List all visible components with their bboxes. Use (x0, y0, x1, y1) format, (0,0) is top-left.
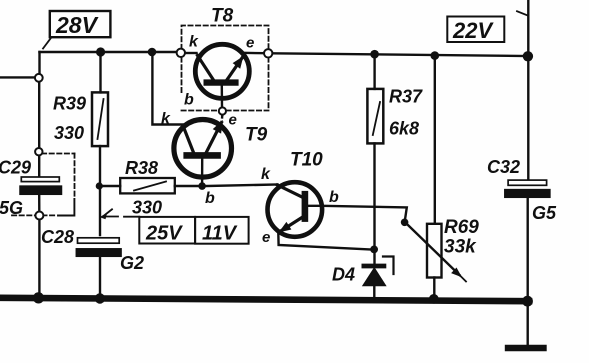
svg-text:R39: R39 (53, 94, 86, 114)
svg-text:28V: 28V (55, 12, 99, 38)
svg-text:11V: 11V (202, 223, 238, 245)
svg-text:330: 330 (54, 123, 84, 143)
svg-text:b: b (184, 92, 194, 109)
svg-text:C32: C32 (487, 157, 520, 177)
svg-text:G5: G5 (532, 203, 557, 223)
svg-text:T9: T9 (245, 125, 268, 146)
svg-text:e: e (262, 229, 270, 246)
svg-text:C29: C29 (0, 158, 31, 178)
svg-text:25V: 25V (145, 223, 183, 245)
svg-text:330: 330 (132, 198, 162, 218)
svg-text:33k: 33k (444, 237, 477, 258)
svg-text:e: e (246, 35, 254, 52)
svg-text:k: k (261, 166, 271, 183)
svg-text:b: b (205, 190, 215, 207)
svg-text:k: k (189, 34, 199, 51)
svg-text:R69: R69 (444, 217, 479, 238)
svg-text:G2: G2 (120, 253, 144, 273)
svg-text:5G: 5G (0, 198, 23, 218)
svg-text:R37: R37 (389, 87, 423, 107)
svg-text:C28: C28 (41, 227, 74, 247)
svg-text:T10: T10 (290, 150, 323, 171)
svg-text:D4: D4 (332, 265, 355, 285)
svg-text:22V: 22V (452, 18, 494, 43)
svg-text:e: e (229, 112, 237, 129)
svg-text:b: b (329, 189, 339, 206)
svg-text:T8: T8 (211, 6, 234, 27)
svg-text:6k8: 6k8 (389, 119, 419, 139)
svg-text:k: k (161, 111, 171, 128)
svg-text:R38: R38 (125, 158, 158, 178)
